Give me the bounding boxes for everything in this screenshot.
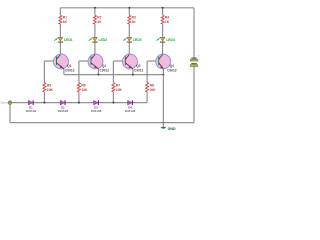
svg-text:1N4148: 1N4148 <box>57 109 68 113</box>
svg-text:10K: 10K <box>150 88 157 92</box>
svg-text:GND: GND <box>168 127 176 131</box>
svg-text:C9013: C9013 <box>134 68 144 72</box>
svg-text:C9013: C9013 <box>65 68 75 72</box>
svg-text:1K: 1K <box>165 20 170 24</box>
svg-text:10K: 10K <box>47 88 54 92</box>
svg-text:1K: 1K <box>132 20 137 24</box>
svg-text:1K: 1K <box>97 20 102 24</box>
svg-text:1K: 1K <box>63 20 68 24</box>
svg-text:LED1: LED1 <box>64 38 73 42</box>
svg-text:LED4: LED4 <box>166 38 175 42</box>
svg-text:10K: 10K <box>81 88 88 92</box>
svg-text:10K: 10K <box>116 88 123 92</box>
svg-text:1N4148: 1N4148 <box>125 109 136 113</box>
svg-text:C9013: C9013 <box>100 68 110 72</box>
svg-text:Signal: Signal <box>0 101 9 105</box>
svg-text:C9013: C9013 <box>167 68 177 72</box>
svg-text:LED3: LED3 <box>133 38 142 42</box>
svg-text:1N4148: 1N4148 <box>91 109 102 113</box>
svg-text:1N4148: 1N4148 <box>26 109 37 113</box>
svg-text:LED2: LED2 <box>99 38 108 42</box>
